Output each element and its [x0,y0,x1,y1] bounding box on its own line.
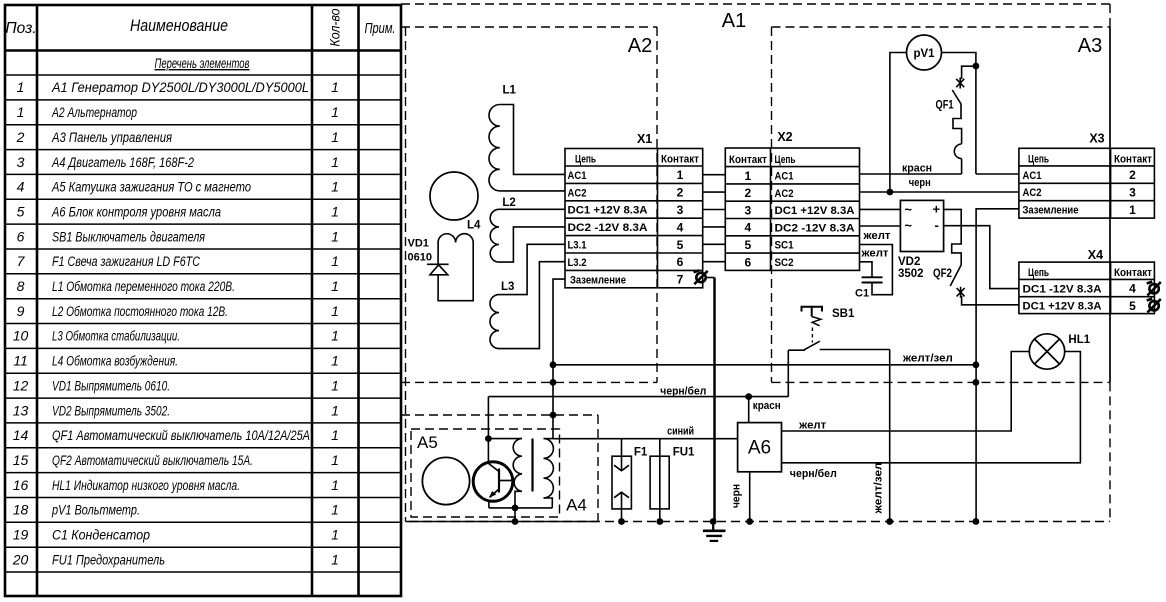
svg-text:18: 18 [13,502,29,518]
thick ground wire down [713,278,716,522]
svg-text:QF1 Автоматический выключатель: QF1 Автоматический выключатель 10А/12А/2… [52,428,310,443]
coil L4 with rectifier VD1 loop [438,234,473,301]
svg-text:1: 1 [331,278,339,294]
wire chern A6 down [749,472,751,522]
svg-text:Контакт: Контакт [1114,267,1153,279]
parts table row lines [5,75,401,572]
ignition transformer primary [488,439,522,508]
svg-text:A6: A6 [748,438,771,459]
wire X2 row4 to VD2 [860,225,901,227]
svg-text:4: 4 [1129,282,1136,296]
svg-text:19: 19 [13,527,29,543]
svg-text:A4: A4 [566,496,587,515]
svg-text:-: - [935,218,939,233]
svg-text:Прим.: Прим. [365,20,396,37]
svg-text:X4: X4 [1088,248,1103,262]
svg-text:2: 2 [1129,168,1136,182]
voltmeter pV1 [907,35,942,70]
svg-text:1: 1 [677,168,684,182]
svg-text:Цепь: Цепь [575,154,596,166]
svg-text:AC2: AC2 [1023,187,1042,199]
X4 chassis symbol pin5 [1147,299,1161,313]
svg-text:AC1: AC1 [568,170,587,182]
wire SC2 X2 row6 to C1 [860,262,873,278]
switch SB1 contact lever [788,341,889,350]
svg-text:желт/зел: желт/зел [902,352,953,364]
svg-text:L4 Обмотка возбуждения.: L4 Обмотка возбуждения. [52,354,178,369]
connector X4 table [1019,262,1155,314]
svg-text:16: 16 [13,477,29,493]
svg-text:черн: черн [730,484,742,508]
svg-text:1: 1 [745,169,752,183]
svg-text:SC2: SC2 [775,257,794,269]
svg-text:1: 1 [331,204,339,220]
svg-text:1: 1 [331,377,339,393]
svg-text:1: 1 [331,79,339,95]
svg-text:1: 1 [331,551,339,567]
svg-text:3502: 3502 [898,268,924,280]
svg-text:VD2: VD2 [898,256,920,268]
svg-text:VD2 Выпрямитель 3502.: VD2 Выпрямитель 3502. [52,403,170,418]
switch SB1 right wire down zhelt-zel [889,350,891,522]
rectifier VD2 box [900,200,943,251]
fuse FU1 [650,439,669,522]
quantity column [331,79,339,567]
svg-text:1: 1 [331,253,339,269]
wire X2 row3 to VD2 [860,208,901,210]
junction pV1-QF1 [973,63,980,70]
svg-text:12: 12 [13,377,29,393]
spark plug F1 [612,439,631,522]
svg-text:Заземление: Заземление [570,274,626,286]
svg-text:A1: A1 [722,10,746,32]
svg-text:красн: красн [902,163,932,175]
wire zhelt A6 to HL1 [782,352,1030,432]
transistor Q1 circle [473,462,513,502]
svg-text:L3.1: L3.1 [568,240,587,252]
connector X1 texts [568,154,700,287]
svg-text:QF1: QF1 [936,100,954,112]
svg-text:1: 1 [331,353,339,369]
wire SC1 X2 row5 to C1 [860,245,893,295]
connector X4 texts [1023,267,1153,313]
connector X3 texts [1023,153,1153,216]
block A3 panel dashed box [772,27,1111,382]
svg-text:L3.2: L3.2 [568,257,587,269]
pV1 right lead [942,53,976,175]
block A3 right solid edge [1109,27,1111,382]
junction dots [485,361,979,524]
block A1 generator dashed box [401,4,1110,522]
wire krasn A6 [748,397,750,423]
svg-text:Цепь: Цепь [1028,153,1049,165]
section title [155,55,250,71]
svg-text:A2: A2 [628,35,652,57]
svg-text:HL1: HL1 [1068,334,1090,346]
junction krasn [745,393,752,400]
coil L3 [490,244,565,348]
switch SB1 button cap [802,307,823,317]
parts table frame [5,5,401,596]
svg-text:1: 1 [331,477,339,493]
svg-text:5: 5 [677,238,684,252]
svg-text:1: 1 [17,79,25,95]
svg-text:5: 5 [1129,299,1136,313]
svg-text:6: 6 [745,255,752,269]
svg-text:13: 13 [13,402,29,418]
svg-text:+: + [933,202,941,217]
block A6 box [738,423,782,472]
svg-text:А5 Катушка зажигания ТО с магн: А5 Катушка зажигания ТО с магнето [51,180,251,195]
svg-text:Контакт: Контакт [1114,153,1153,165]
svg-text:черн: черн [909,177,931,189]
svg-text:желт/зел: желт/зел [873,462,885,514]
svg-text:Контакт: Контакт [661,154,700,166]
svg-text:F1 Свеча зажигания LD F6TC: F1 Свеча зажигания LD F6TC [52,254,200,269]
svg-text:DC2 -12V 8.3A: DC2 -12V 8.3A [775,222,855,234]
rotor circle [430,172,478,220]
svg-text:DC1 +12V 8.3A: DC1 +12V 8.3A [775,205,855,217]
svg-text:L1 Обмотка переменного тока 22: L1 Обмотка переменного тока 220В. [52,279,235,294]
svg-text:X1: X1 [637,132,652,146]
svg-text:Перечень элементов: Перечень элементов [155,55,250,71]
svg-text:SB1 Выключатель двигателя: SB1 Выключатель двигателя [52,229,205,244]
breaker QF2 [944,209,1019,304]
table body text [51,80,310,567]
svg-text:DC1 +12V 8.3A: DC1 +12V 8.3A [568,205,648,217]
transistor emitter wire down [488,500,490,508]
svg-text:С1 Конденсатор: С1 Конденсатор [52,528,150,543]
svg-text:1: 1 [331,527,339,543]
ignition transformer secondary [544,439,554,508]
block A4 engine dashed box [401,415,598,522]
svg-text:3: 3 [1129,186,1136,200]
svg-text:F1: F1 [634,447,648,459]
svg-text:Цепь: Цепь [775,154,796,166]
svg-text:Цепь: Цепь [1028,267,1049,279]
coil L2 [490,209,565,262]
svg-text:1: 1 [331,502,339,518]
svg-text:AC2: AC2 [775,188,794,200]
svg-text:синий: синий [667,425,694,437]
svg-text:Контакт: Контакт [729,154,768,166]
svg-text:X3: X3 [1089,132,1104,146]
svg-text:черн/бел: черн/бел [660,385,706,397]
svg-text:0610: 0610 [408,252,432,264]
svg-text:4: 4 [677,220,684,234]
emitter bus wire [489,507,552,509]
svg-text:pV1 Вольтметр.: pV1 Вольтметр. [51,503,140,518]
switch SB1 spring zigzag [812,317,821,326]
block A5 ignition coil dashed box [411,429,560,517]
svg-text:1: 1 [331,402,339,418]
X1 pin7 chassis symbol [694,270,708,284]
svg-text:1: 1 [331,154,339,170]
svg-text:AC1: AC1 [775,171,794,183]
svg-text:9: 9 [17,303,25,319]
svg-text:1: 1 [17,104,25,120]
diode VD1 [427,264,449,275]
X1 ground wire pin7 left [553,279,565,439]
svg-text:красн: красн [753,400,781,412]
svg-text:A3: A3 [1078,35,1102,57]
svg-text:HL1 Индикатор низкого уровня м: HL1 Индикатор низкого уровня масла. [52,478,240,493]
wire QF1 out to X3 AC1 [976,173,1019,175]
svg-text:14: 14 [13,427,29,443]
connector X3 table [1019,148,1155,218]
svg-text:1: 1 [331,452,339,468]
svg-text:1: 1 [331,129,339,145]
X1-X2 harness wires [703,175,726,262]
svg-text:SB1: SB1 [832,308,855,320]
svg-text:L3: L3 [501,281,514,293]
svg-text:DC1 -12V 8.3A: DC1 -12V 8.3A [1023,283,1102,295]
position numbers [12,79,29,567]
svg-text:Наименование: Наименование [130,16,228,35]
switch SB1 link dashed [811,328,813,343]
switch SB1 left wire down [787,350,789,396]
svg-text:4: 4 [17,179,25,195]
wire zhelt-zel horizontal [553,364,976,366]
table headers [5,8,395,46]
svg-text:A5: A5 [417,433,438,452]
svg-text:~: ~ [905,218,913,233]
wire common down to bus [514,508,516,522]
earth ground symbol [703,522,726,541]
svg-text:8: 8 [17,278,25,294]
wire AC1 krasn X2 to QF1 [860,173,962,175]
svg-text:Кол-во: Кол-во [327,8,343,46]
svg-text:FU1: FU1 [673,447,695,459]
svg-text:А6 Блок контроля уровня масла: А6 Блок контроля уровня масла [51,205,221,220]
rectifier VD2 marks [905,202,941,234]
wire AC2 chern X2 to X3 [860,191,1019,193]
svg-text:pV1: pV1 [913,48,935,60]
wire siniy [553,438,738,440]
svg-text:1: 1 [331,104,339,120]
svg-text:А1 Генератор DY2500L/DY3000L/D: А1 Генератор DY2500L/DY3000L/DY5000L [51,80,309,95]
svg-text:AC1: AC1 [1023,170,1042,182]
svg-text:L3 Обмотка стабилизации.: L3 Обмотка стабилизации. [52,329,180,344]
svg-text:SC1: SC1 [775,240,794,252]
connector X2 texts [729,154,855,269]
svg-text:L2 Обмотка постоянного тока 12: L2 Обмотка постоянного тока 12В. [52,304,228,319]
svg-text:11: 11 [13,353,28,369]
lamp HL1 [1029,334,1064,369]
breaker QF1 [952,66,976,174]
svg-text:L2: L2 [502,197,515,209]
svg-text:1: 1 [331,427,339,443]
transistor Q1 internals [489,464,514,498]
svg-text:~: ~ [905,202,913,217]
ground bus solid segment A4 bottom [406,521,599,523]
svg-text:желт: желт [798,420,827,432]
svg-text:3: 3 [745,203,752,217]
wire chern-bel horizontal [488,396,788,398]
transistor emitter arrow [489,491,496,498]
svg-text:1: 1 [331,328,339,344]
svg-text:L1: L1 [503,85,517,97]
ignition transformer core [531,439,533,492]
svg-text:QF2 Автоматический выключатель: QF2 Автоматический выключатель 15А. [52,453,253,468]
pV1 left lead [890,53,907,193]
connector X2 table [725,148,859,270]
svg-text:3: 3 [677,203,684,217]
wire VD2 minus to X4 row4 [944,226,1019,289]
svg-text:L4: L4 [467,220,481,232]
svg-text:VD1: VD1 [408,238,429,250]
svg-text:7: 7 [17,253,26,269]
svg-text:X2: X2 [777,130,792,144]
svg-text:AC2: AC2 [568,187,587,199]
X1 pin7 ground wire right [706,277,715,279]
svg-text:1: 1 [331,179,339,195]
svg-text:А4 Двигатель 168F, 168F-2: А4 Двигатель 168F, 168F-2 [51,155,194,170]
svg-text:А3 Панель управления: А3 Панель управления [51,130,172,145]
svg-text:2: 2 [677,186,684,200]
svg-text:черн/бел: черн/бел [790,468,837,480]
svg-text:DC2 -12V 8.3A: DC2 -12V 8.3A [568,222,648,234]
svg-text:QF2: QF2 [933,268,952,280]
wire X3 ground down [976,209,1019,522]
coil L1 [489,105,565,191]
flywheel circle [422,457,469,504]
svg-text:Заземление: Заземление [1023,205,1079,217]
svg-text:Поз.: Поз. [5,20,36,37]
svg-text:C1: C1 [855,288,869,300]
wire chern-bel A6 to HL1 [782,352,1081,463]
svg-text:1: 1 [331,303,339,319]
svg-text:FU1 Предохранитель: FU1 Предохранитель [52,552,165,567]
capacitor C1 [862,277,883,282]
svg-text:3: 3 [17,154,25,170]
svg-text:5: 5 [745,238,752,252]
svg-text:20: 20 [12,551,29,567]
svg-text:6: 6 [677,255,684,269]
svg-text:7: 7 [677,273,684,287]
junction pV1-chern [887,189,894,196]
svg-text:А2 Альтернатор: А2 Альтернатор [51,105,137,120]
svg-text:VD1 Выпрямитель 0610.: VD1 Выпрямитель 0610. [52,378,170,393]
svg-text:желт: желт [862,230,891,242]
block A2 alternator dashed box [401,27,657,382]
svg-text:1: 1 [1129,203,1136,217]
svg-text:4: 4 [745,221,752,235]
svg-text:желт: желт [860,248,889,260]
connector X1 table [565,149,703,288]
svg-text:2: 2 [745,186,752,200]
svg-text:DC1 +12V 8.3A: DC1 +12V 8.3A [1023,301,1102,313]
svg-text:1: 1 [331,228,339,244]
svg-text:15: 15 [13,452,29,468]
svg-text:2: 2 [16,129,25,145]
svg-text:6: 6 [17,228,25,244]
wire collector up [487,397,489,462]
svg-text:10: 10 [13,328,29,344]
X4 chassis symbol pin4 [1147,282,1161,296]
svg-text:5: 5 [17,204,25,220]
